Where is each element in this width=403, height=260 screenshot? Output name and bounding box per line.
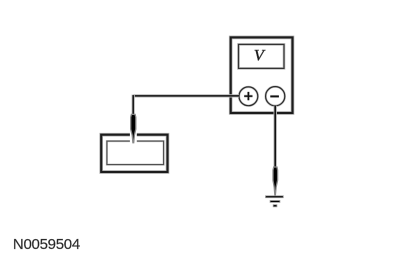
ground symbol [266, 196, 284, 207]
probe P1 (test probe into component) [131, 114, 136, 142]
positive terminal [239, 87, 258, 106]
svg-text:N0059504: N0059504 [13, 236, 80, 253]
component under test box (outer) [101, 135, 167, 172]
gap in box edges for probe needle [130, 132, 137, 143]
voltmeter display [239, 44, 285, 68]
component under test box (inner) [107, 141, 164, 165]
wire down to probe P1 (vertical) [132, 95, 135, 116]
probe P2 (ground probe) [273, 167, 278, 195]
wire from positive terminal to probe (horizontal) [133, 94, 239, 97]
negative terminal [266, 87, 285, 106]
wire from negative terminal to ground probe [274, 106, 277, 168]
voltmeter U1 body [231, 37, 293, 113]
